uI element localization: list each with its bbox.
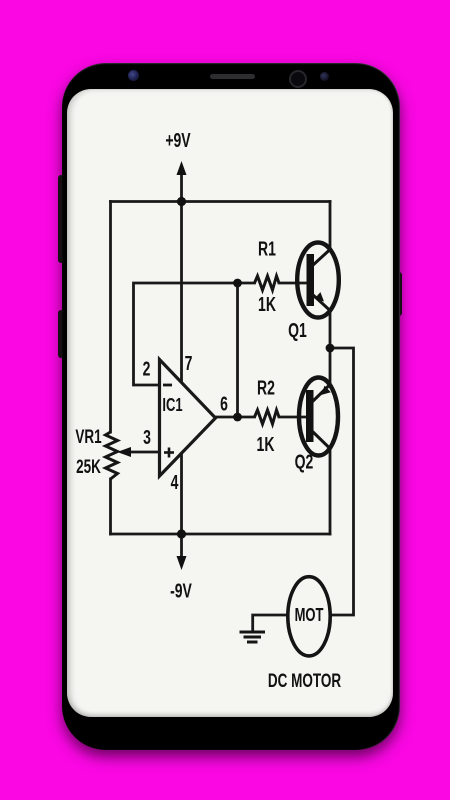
svg-text:+9V: +9V	[165, 128, 191, 151]
svg-text:3: 3	[143, 425, 151, 448]
svg-text:2: 2	[143, 357, 151, 380]
svg-text:-9V: -9V	[170, 579, 192, 602]
svg-text:Q1: Q1	[288, 318, 307, 341]
svg-text:MOT: MOT	[295, 606, 324, 626]
svg-text:1K: 1K	[258, 292, 276, 315]
svg-text:R1: R1	[258, 237, 276, 260]
svg-text:1K: 1K	[257, 432, 275, 455]
svg-text:7: 7	[185, 351, 193, 374]
svg-text:Q2: Q2	[295, 450, 314, 473]
svg-text:4: 4	[171, 470, 179, 493]
svg-text:25K: 25K	[76, 456, 101, 478]
svg-text:IC1: IC1	[162, 396, 182, 416]
svg-text:R2: R2	[257, 376, 275, 399]
svg-text:6: 6	[220, 392, 228, 415]
svg-text:VR1: VR1	[75, 426, 101, 448]
svg-text:DC MOTOR: DC MOTOR	[268, 670, 341, 692]
